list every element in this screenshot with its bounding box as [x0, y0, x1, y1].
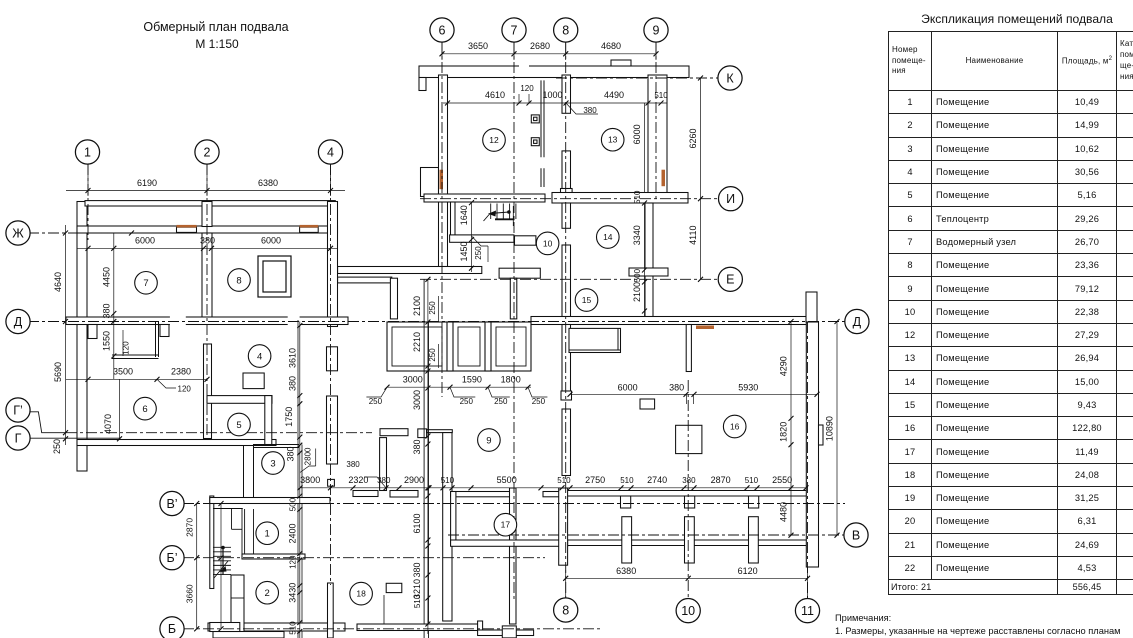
svg-text:Д: Д	[853, 315, 862, 329]
svg-text:250: 250	[460, 397, 474, 406]
svg-text:В: В	[852, 528, 860, 542]
room 1 inner wall top	[213, 508, 243, 510]
axis circle 1	[75, 140, 99, 164]
window pit row outer	[387, 322, 531, 371]
axis circle Д right	[845, 309, 869, 333]
svg-text:120: 120	[178, 385, 192, 394]
svg-text:Обмерный план подвала: Обмерный план подвала	[143, 20, 288, 34]
axis circle 8 top	[554, 18, 578, 42]
room 3 top wall	[253, 444, 299, 446]
wall west of room10	[450, 235, 514, 242]
svg-text:8: 8	[562, 603, 569, 617]
V-prime wall west part	[210, 498, 330, 504]
svg-text:Д: Д	[14, 315, 23, 329]
svg-text:3430: 3430	[287, 583, 297, 603]
wall axis 8 below D lower	[562, 409, 571, 476]
svg-text:380: 380	[287, 376, 297, 391]
pier above axis 2	[202, 202, 212, 227]
axis 1 line	[87, 164, 89, 240]
svg-text:3660: 3660	[185, 584, 195, 603]
svg-text:2680: 2680	[530, 41, 550, 51]
axis circle Б’ left	[160, 546, 184, 570]
pier stub V-prime 3	[749, 496, 759, 508]
dim 10890 east	[836, 322, 838, 536]
stair lower flight	[213, 546, 231, 548]
svg-text:15: 15	[582, 295, 592, 305]
svg-text:7: 7	[511, 23, 518, 37]
outer wall top center	[419, 66, 689, 78]
wall box at x427 crossing	[418, 429, 427, 438]
stair arrow	[507, 210, 511, 214]
axis circle Е right	[718, 267, 742, 291]
V-prime wall stubs east	[353, 491, 378, 497]
svg-text:4290: 4290	[779, 356, 789, 376]
svg-text:380: 380	[101, 303, 111, 318]
dim left column 4640/5690/250	[65, 225, 67, 445]
room circle 10	[536, 232, 559, 255]
small partition room 6 horizontal	[112, 354, 159, 356]
dim 4610/120/1000/4490/510	[443, 102, 667, 104]
svg-text:380: 380	[200, 236, 215, 246]
dim 1640/1450/250 stairs	[471, 203, 473, 272]
svg-text:250: 250	[428, 301, 437, 315]
svg-text:2210: 2210	[412, 332, 422, 352]
top wall left cap	[419, 78, 426, 91]
bottom wall center	[357, 624, 478, 631]
svg-text:16: 16	[730, 421, 740, 431]
wall G right jog	[380, 429, 408, 436]
axis Zh line	[28, 232, 135, 234]
wall axis 7 lower	[510, 488, 517, 624]
niche box	[569, 328, 621, 352]
top wall notch	[611, 60, 631, 66]
svg-text:4610: 4610	[485, 90, 505, 100]
wall E west lower	[338, 277, 392, 283]
svg-text:Б: Б	[168, 622, 176, 636]
axis 4 line	[330, 164, 332, 585]
dim column x300 3610/380/1750/380	[299, 322, 301, 466]
room 17 left wall	[451, 492, 456, 546]
svg-text:М 1:150: М 1:150	[195, 37, 239, 51]
svg-text:13: 13	[608, 135, 618, 145]
svg-text:14: 14	[603, 232, 613, 242]
bottom notch	[502, 626, 516, 638]
svg-text:3000: 3000	[412, 390, 422, 410]
svg-text:380: 380	[346, 460, 360, 469]
svg-text:6260: 6260	[688, 128, 698, 148]
dim 6000/380/5930 room 16	[570, 393, 817, 395]
svg-text:7: 7	[143, 278, 148, 289]
room circle 1	[256, 522, 279, 545]
axis 9 line	[655, 42, 657, 200]
electric box 2	[531, 138, 539, 146]
wall on axis D west part	[66, 317, 348, 325]
svg-text:9: 9	[653, 23, 660, 37]
axis 10 line	[687, 380, 689, 598]
shaft divider	[231, 597, 244, 599]
svg-text:250: 250	[52, 439, 62, 454]
svg-text:380: 380	[669, 383, 684, 393]
svg-text:6: 6	[142, 404, 147, 415]
axis 2 line	[206, 164, 208, 440]
svg-text:510: 510	[441, 476, 455, 485]
axis circle 10 bottom	[676, 599, 700, 623]
svg-text:2550: 2550	[772, 475, 792, 485]
svg-text:510: 510	[633, 190, 642, 204]
bottom wall west	[208, 623, 345, 631]
axis circle 7 top	[502, 18, 526, 42]
svg-text:Г: Г	[15, 431, 22, 445]
svg-text:Г’: Г’	[13, 403, 23, 417]
svg-text:2: 2	[265, 588, 270, 599]
room 10 stub wall	[515, 236, 536, 245]
axis 6 line	[441, 42, 443, 397]
svg-text:10: 10	[681, 604, 695, 618]
electric box 1	[531, 115, 539, 123]
wall on axis E stub east	[629, 268, 668, 276]
svg-text:6000: 6000	[618, 383, 638, 393]
svg-text:5500: 5500	[497, 475, 517, 485]
svg-text:3500: 3500	[113, 367, 133, 377]
svg-text:2800: 2800	[304, 447, 313, 465]
window pit inner line 3	[496, 327, 526, 366]
svg-text:5930: 5930	[738, 383, 758, 393]
axis V-prime line	[183, 503, 845, 505]
window pit divider 2	[485, 322, 491, 371]
svg-text:8: 8	[236, 275, 241, 286]
axis circle Ж left	[6, 221, 30, 245]
bottom box west	[213, 632, 284, 638]
axis I line	[420, 198, 719, 200]
door gap D wall 2	[288, 316, 300, 326]
pier axis 4 lower	[327, 396, 338, 464]
svg-text:12: 12	[489, 135, 499, 145]
svg-text:3610: 3610	[287, 348, 297, 368]
axis 11 line	[807, 322, 809, 598]
svg-text:9: 9	[486, 435, 491, 446]
svg-text:2100: 2100	[632, 282, 642, 302]
room 17 top wall west	[451, 492, 516, 497]
svg-text:250: 250	[494, 397, 508, 406]
axis K line	[556, 77, 719, 79]
room 17 right wall	[559, 488, 568, 565]
dim 510/3340/500/2100 center east	[644, 203, 646, 316]
axis G line	[29, 437, 120, 439]
room 14 right wall	[645, 203, 653, 317]
svg-text:Б’: Б’	[167, 551, 178, 565]
room18 right wall	[443, 433, 452, 621]
svg-text:4680: 4680	[601, 41, 621, 51]
dim 6260 right	[700, 78, 702, 199]
svg-text:4: 4	[327, 145, 334, 159]
shaft in room 8 outer	[258, 256, 291, 297]
wall V-prime thin east	[568, 490, 806, 492]
door gap D wall 1	[170, 316, 186, 326]
room circle 3	[262, 452, 285, 475]
outer wall axis 6	[439, 75, 448, 267]
pier V 2	[685, 517, 695, 563]
wall V thin east	[568, 539, 806, 541]
window tint axis9 wall	[662, 170, 666, 187]
dim top center 3650/2680/4680	[442, 53, 656, 55]
thin band to room18 wall	[427, 430, 453, 433]
svg-text:5690: 5690	[53, 362, 63, 382]
explication table	[888, 31, 1133, 595]
B-lower wall piece	[210, 623, 240, 632]
svg-text:2100: 2100	[412, 296, 422, 316]
svg-text:510: 510	[288, 621, 297, 635]
room circle 18	[350, 582, 373, 605]
axis 7 line	[513, 42, 515, 600]
wall stub below D at axis1	[88, 325, 97, 339]
stair upper flight	[490, 204, 492, 220]
svg-text:500: 500	[288, 497, 297, 511]
room 3 right wall	[297, 320, 299, 638]
window tint axis6 wall	[440, 170, 444, 190]
svg-text:380: 380	[285, 446, 295, 461]
wall axis 8 at I junction	[561, 189, 573, 203]
east wall jog	[819, 425, 824, 445]
svg-text:3000: 3000	[403, 374, 423, 384]
window room 7 box	[177, 227, 197, 232]
pier axis 4 upper	[327, 347, 338, 371]
window pit inner line 1	[392, 327, 442, 366]
svg-text:В’: В’	[166, 497, 177, 511]
svg-text:510: 510	[557, 476, 571, 485]
svg-text:510: 510	[413, 594, 422, 608]
niche box inner line	[569, 349, 621, 351]
room circle 14	[597, 226, 620, 249]
window room 8 box	[300, 227, 319, 232]
notes	[835, 612, 1133, 638]
room circle 8	[228, 269, 251, 292]
window tint top wall room 8	[300, 225, 319, 228]
dim 4290/1820/4480 east	[790, 322, 792, 536]
axis circle 4	[318, 140, 342, 164]
svg-text:2: 2	[204, 145, 211, 159]
axis circle В’ left	[160, 491, 184, 515]
wall G horizontal	[77, 440, 276, 446]
svg-text:380: 380	[412, 439, 422, 454]
small rect room 16	[640, 399, 655, 409]
axis V line	[448, 534, 844, 536]
room circle 15	[575, 289, 598, 312]
svg-text:2900: 2900	[404, 475, 424, 485]
svg-text:4490: 4490	[604, 90, 624, 100]
room1/2 divider B-prime	[242, 554, 305, 559]
svg-text:510: 510	[745, 476, 759, 485]
svg-text:120: 120	[288, 555, 297, 569]
svg-text:1550: 1550	[101, 331, 111, 351]
small partition room 6 vertical	[155, 322, 157, 358]
svg-text:4: 4	[257, 351, 262, 362]
axis circle 8 bottom	[554, 598, 578, 622]
axis circle Г’ left	[6, 398, 30, 422]
svg-text:4070: 4070	[103, 414, 113, 434]
svg-text:Ж: Ж	[12, 226, 24, 240]
room 17 top wall east	[543, 492, 566, 497]
svg-text:2870: 2870	[711, 475, 731, 485]
dim 6000 room 13	[644, 103, 646, 192]
room circle 2	[256, 581, 279, 604]
svg-text:4480: 4480	[779, 502, 789, 522]
svg-text:3340: 3340	[632, 225, 642, 245]
wall jog vertical	[380, 438, 387, 491]
svg-text:4110: 4110	[688, 226, 698, 245]
room circle 9	[478, 429, 501, 452]
room circle 6	[134, 397, 157, 420]
room 16 left partition	[686, 325, 691, 372]
stair right wall	[231, 575, 244, 638]
svg-text:2380: 2380	[171, 367, 191, 377]
wall axis 8 rooms 14-15 a	[562, 203, 571, 228]
svg-text:4640: 4640	[53, 272, 63, 292]
room circle 4	[248, 345, 271, 368]
svg-text:К: К	[726, 71, 734, 85]
window tint top wall room 7	[177, 225, 197, 228]
svg-text:2320: 2320	[348, 475, 368, 485]
wall on axis E stub mid	[499, 268, 540, 278]
svg-text:1640: 1640	[459, 205, 469, 225]
svg-text:2870: 2870	[185, 518, 195, 537]
thin line near room18	[383, 595, 385, 624]
svg-text:250: 250	[428, 348, 437, 362]
niche box inner right	[617, 328, 619, 350]
dim column x300 rooms 1-2	[299, 465, 301, 638]
window pit inner line 2	[458, 327, 480, 366]
svg-text:3800: 3800	[300, 475, 320, 485]
svg-text:1590: 1590	[462, 374, 482, 384]
axis E line	[420, 278, 719, 280]
svg-text:380: 380	[412, 562, 422, 577]
wall axis 2 rooms 7-8	[202, 233, 212, 322]
axis D line	[28, 321, 846, 323]
bottom wall corner	[478, 621, 483, 631]
svg-text:250: 250	[532, 397, 546, 406]
room 3 left wall	[243, 445, 245, 499]
svg-text:8: 8	[562, 23, 569, 37]
axis G-prime leader	[29, 412, 66, 433]
svg-text:1800: 1800	[501, 374, 521, 384]
axis circle Б left	[160, 617, 184, 638]
corridor wall x424	[423, 279, 425, 638]
small box axis4 dim	[328, 479, 335, 486]
table title	[888, 12, 1133, 26]
long wall below stairs	[338, 267, 482, 274]
wall axis 2 lower	[204, 344, 212, 439]
svg-text:Е: Е	[726, 273, 734, 287]
svg-text:1: 1	[84, 145, 91, 159]
svg-text:510: 510	[620, 476, 634, 485]
room 5 top wall	[207, 396, 272, 404]
wall axis 8 below D cap	[561, 391, 572, 400]
svg-text:4450: 4450	[101, 267, 111, 287]
room circle 12	[483, 129, 506, 152]
window tint on D wall	[696, 326, 714, 330]
wall I to room10 connector	[451, 202, 456, 236]
svg-text:1: 1	[265, 529, 270, 540]
bottom wall east low	[478, 630, 534, 636]
dim 4110 right	[700, 199, 702, 280]
dim 1550/120 room 6	[113, 322, 115, 380]
svg-text:2740: 2740	[647, 475, 667, 485]
room circle 16	[723, 415, 746, 438]
dim 3500/2380 line	[66, 378, 207, 380]
room 5 right wall	[265, 396, 272, 445]
window pit divider 1	[447, 322, 453, 371]
svg-text:10890: 10890	[825, 416, 835, 441]
wall axis 8 below D upper	[562, 325, 571, 392]
svg-text:6000: 6000	[261, 236, 281, 246]
room circle 5	[228, 413, 251, 436]
svg-text:6380: 6380	[616, 566, 636, 576]
svg-text:380: 380	[377, 476, 391, 485]
room circle 17	[494, 513, 517, 536]
svg-text:500: 500	[633, 268, 642, 282]
svg-text:И: И	[726, 192, 735, 206]
shaft in room 8 inner	[263, 261, 286, 292]
svg-text:120: 120	[520, 84, 534, 93]
svg-text:5: 5	[236, 420, 241, 431]
dim long line y487.8	[300, 487, 806, 489]
svg-text:1750: 1750	[284, 407, 294, 427]
svg-text:2750: 2750	[585, 475, 605, 485]
axis circle 11 bottom	[795, 599, 819, 623]
svg-text:1820: 1820	[779, 422, 789, 442]
axis circle 2	[195, 140, 219, 164]
svg-text:1000: 1000	[542, 90, 562, 100]
axis circle Д left	[6, 309, 30, 333]
wall axis 8 rooms 14-15 b	[562, 245, 571, 317]
axis B-prime line	[183, 557, 545, 559]
axis circle И right	[719, 187, 743, 211]
wall axis 8 rooms 12-13 lower	[562, 151, 571, 189]
dim 4070 room 6	[119, 379, 121, 439]
axis circle К right	[718, 66, 742, 90]
svg-text:250: 250	[474, 246, 483, 260]
axis B-lower line	[183, 628, 600, 630]
svg-text:380: 380	[682, 476, 696, 485]
svg-text:510: 510	[654, 91, 668, 100]
wall stub below D at axis2 left	[160, 325, 169, 337]
outer wall top rooms 7-8	[77, 226, 338, 233]
wall left above D	[390, 278, 397, 319]
dim 6000/380/6000	[77, 247, 337, 249]
top wall gap white	[519, 65, 529, 77]
dim 6380/6120 bottom	[566, 577, 808, 579]
partition room 12 right	[540, 80, 542, 157]
stair lower arrow	[220, 566, 227, 572]
wall axis 8 rooms 12-13 upper	[562, 75, 571, 113]
svg-text:2400: 2400	[287, 523, 297, 543]
pier V 3	[749, 517, 759, 563]
outer wall left (axis 1)	[77, 202, 87, 472]
pier stub V-prime 1	[621, 496, 631, 508]
svg-text:6190: 6190	[137, 178, 157, 188]
pier stub V-prime 2	[685, 496, 695, 508]
room1 block left wall	[210, 496, 214, 589]
axis circle 9 top	[644, 18, 668, 42]
axis 8 line	[565, 42, 567, 598]
outer wall east	[806, 322, 818, 567]
outer wall east upper	[806, 292, 817, 322]
dim 3000/1590/1800 window pits	[387, 386, 531, 388]
svg-text:11: 11	[801, 604, 814, 618]
wall stub left of room15	[510, 278, 517, 319]
wall axis D center-east	[531, 317, 817, 325]
stair lower rail	[222, 548, 224, 576]
dim column x427 long	[427, 279, 429, 634]
